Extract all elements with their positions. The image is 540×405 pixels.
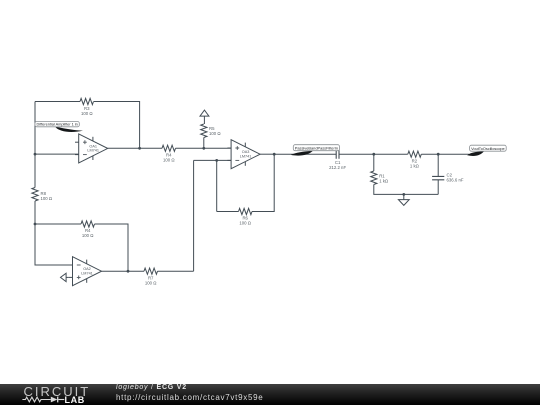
terminal arrow up — [200, 110, 209, 116]
logo resistor zigzag — [22, 397, 50, 402]
svg-text:LM741: LM741 — [81, 271, 93, 275]
node OA3 feedback junction — [215, 159, 218, 162]
svg-text:100 Ω: 100 Ω — [209, 131, 221, 136]
wire R5 lower stem — [203, 138, 205, 149]
wire left rail upper — [34, 102, 36, 155]
footer bar — [0, 384, 540, 405]
wire R7 to vertical — [158, 270, 194, 272]
wire C2 lower stem — [437, 180, 439, 195]
resistor R4 — [162, 145, 176, 151]
svg-text:100 Ω: 100 Ω — [163, 157, 175, 162]
node OA1 inverting junction — [34, 153, 37, 156]
node ground junction — [402, 193, 405, 196]
resistor R1 — [371, 171, 377, 185]
resistor R3 — [80, 98, 94, 104]
svg-text:100 Ω: 100 Ω — [82, 233, 94, 238]
wire OA3 output — [260, 153, 274, 155]
wire R1 bottom to C2 bottom — [374, 185, 438, 195]
svg-text:Differential Amplifier 1 in: Differential Amplifier 1 in — [37, 121, 78, 126]
wire R2 to output — [421, 153, 469, 155]
wire OA3 inverting input — [194, 159, 232, 161]
capacitor C1 — [336, 150, 339, 159]
svg-text:LM741: LM741 — [87, 149, 99, 153]
wire down to OA2 output — [193, 160, 195, 271]
label Differential Amplifier 1 in — [55, 126, 83, 132]
node OA3 output junction — [273, 153, 276, 156]
node C2 top — [437, 153, 440, 156]
label VoutToOscilloscope — [467, 151, 484, 156]
wire to C1 — [274, 153, 336, 155]
svg-text:1 kΩ: 1 kΩ — [379, 179, 389, 184]
wire R5 upper stem — [203, 116, 205, 124]
op-amp OA2 — [73, 257, 102, 286]
wire OA2 feedback top — [35, 223, 81, 225]
svg-text:LM741: LM741 — [240, 154, 252, 158]
wire to OA1 inverting input — [35, 153, 79, 155]
resistor R7 — [144, 268, 158, 274]
svg-text:100 Ω: 100 Ω — [145, 280, 157, 285]
svg-text:http://circuitlab.com/ctcav7vt: http://circuitlab.com/ctcav7vt9x59e — [116, 393, 263, 402]
wire arrow stem — [66, 276, 69, 278]
op-amp OA1 — [79, 134, 108, 163]
node R1 top — [372, 153, 375, 156]
wire OA1 output to OA3 — [108, 147, 162, 149]
svg-text:LAB: LAB — [65, 395, 85, 405]
svg-text:100 Ω: 100 Ω — [41, 196, 53, 201]
node OA2 output junction — [127, 270, 130, 273]
logo diode — [51, 397, 58, 403]
resistor R2 — [408, 151, 422, 157]
wire left rail lower — [34, 201, 36, 224]
resistor R6 — [239, 208, 253, 214]
wire OA1 feedback top — [35, 101, 80, 103]
resistor R4b — [81, 221, 95, 227]
node OA2 feedback junction — [34, 223, 37, 226]
svg-text:100 Ω: 100 Ω — [239, 221, 251, 226]
op-amp OA3 — [231, 140, 260, 169]
node feedback tap — [138, 147, 141, 150]
wire OA2 output — [102, 270, 145, 272]
node R5 tap — [202, 147, 205, 150]
wire to OA2 inverting input — [35, 224, 73, 265]
wire C2 upper stem — [437, 154, 439, 176]
ground — [398, 200, 409, 206]
svg-text:100 Ω: 100 Ω — [81, 111, 93, 116]
wire C1 to R1 node — [339, 153, 374, 155]
svg-text:636.6 nF: 636.6 nF — [447, 177, 464, 182]
wire OA3 feedback loop — [252, 154, 274, 211]
svg-text:1 kΩ: 1 kΩ — [410, 163, 420, 168]
wire node to R2 — [374, 153, 408, 155]
wire ground stem — [403, 194, 405, 199]
svg-text:212.2 nF: 212.2 nF — [329, 165, 346, 170]
resistor R5 — [201, 124, 207, 138]
capacitor C2 — [432, 176, 444, 179]
label PassiveBandPassFilterIn — [291, 151, 313, 156]
resistor R8 — [32, 188, 38, 202]
terminal arrow left — [61, 273, 67, 281]
svg-text:VoutToOscilloscope: VoutToOscilloscope — [471, 146, 505, 151]
wire left rail mid — [34, 154, 36, 187]
wire R1 upper stem — [373, 154, 375, 171]
svg-text:PassiveBandPassFilterIn: PassiveBandPassFilterIn — [295, 145, 338, 150]
svg-text:logieboy / ECG V2: logieboy / ECG V2 — [116, 384, 187, 391]
